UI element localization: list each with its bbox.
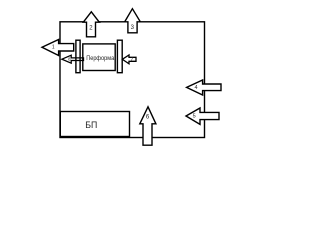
svg-text:БП: БП xyxy=(85,120,97,131)
svg-text:5: 5 xyxy=(193,113,196,119)
svg-text:7: 7 xyxy=(130,57,133,63)
svg-text:1: 1 xyxy=(52,44,55,50)
svg-text:4: 4 xyxy=(194,85,197,91)
svg-text:Перформа: Перформа xyxy=(86,55,115,62)
